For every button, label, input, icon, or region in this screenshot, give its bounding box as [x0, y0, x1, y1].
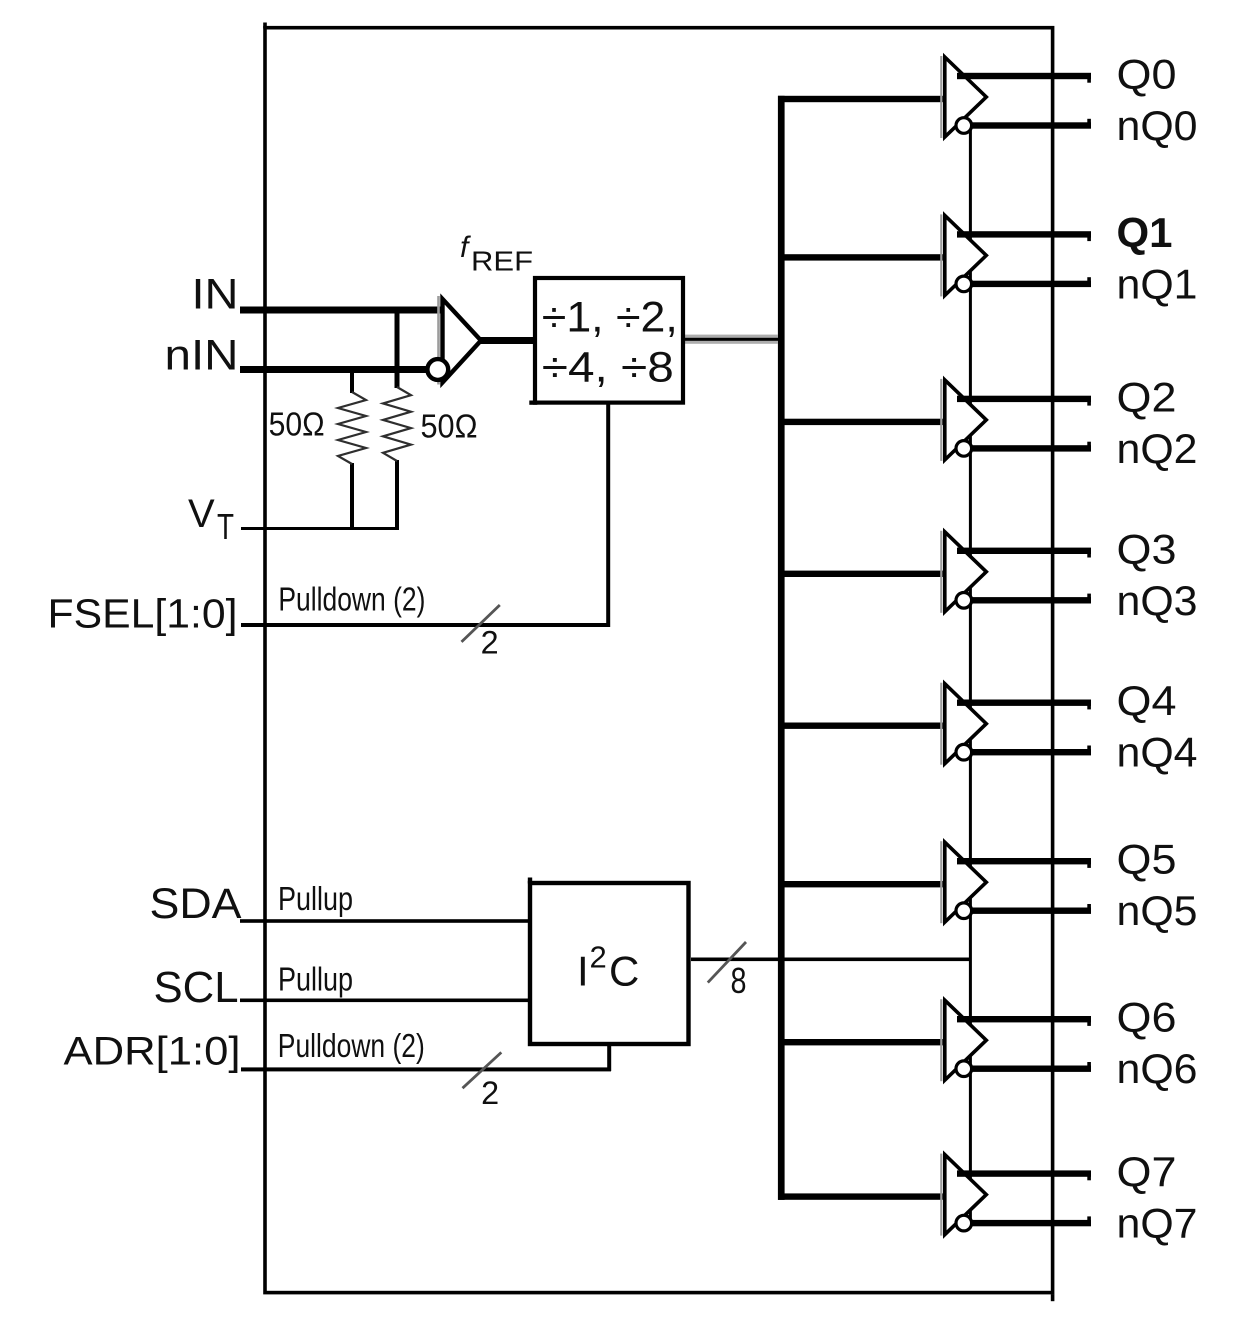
svg-text:Pulldown (2): Pulldown (2) — [278, 1027, 425, 1064]
svg-text:Q1: Q1 — [1117, 209, 1173, 256]
svg-text:50Ω: 50Ω — [421, 408, 478, 445]
svg-text:÷4, ÷8: ÷4, ÷8 — [542, 345, 674, 392]
svg-text:nQ5: nQ5 — [1117, 887, 1198, 934]
svg-text:T: T — [217, 506, 234, 547]
svg-text:Pullup: Pullup — [278, 961, 353, 998]
svg-text:Q2: Q2 — [1117, 373, 1177, 420]
svg-text:FSEL[1:0]: FSEL[1:0] — [48, 591, 238, 637]
svg-text:nQ1: nQ1 — [1117, 260, 1198, 307]
svg-text:Q0: Q0 — [1117, 51, 1177, 98]
svg-text:nIN: nIN — [165, 332, 239, 380]
svg-text:Q6: Q6 — [1117, 994, 1177, 1041]
svg-text:IN: IN — [192, 271, 239, 319]
svg-text:nQ2: nQ2 — [1117, 425, 1198, 472]
svg-text:50Ω: 50Ω — [269, 406, 325, 443]
svg-text:C: C — [609, 948, 639, 995]
svg-text:Pullup: Pullup — [278, 880, 353, 917]
svg-text:nQ7: nQ7 — [1117, 1200, 1198, 1247]
svg-text:Pulldown (2): Pulldown (2) — [278, 581, 425, 618]
svg-text:nQ0: nQ0 — [1117, 102, 1198, 149]
svg-text:2: 2 — [481, 625, 499, 661]
svg-text:SDA: SDA — [150, 880, 242, 928]
svg-text:8: 8 — [731, 960, 747, 1001]
svg-text:Q7: Q7 — [1117, 1148, 1177, 1195]
svg-text:÷1, ÷2,: ÷1, ÷2, — [542, 295, 678, 342]
svg-text:Q3: Q3 — [1117, 525, 1177, 572]
svg-text:SCL: SCL — [154, 964, 239, 1012]
svg-text:nQ4: nQ4 — [1117, 729, 1198, 776]
svg-text:Q5: Q5 — [1117, 836, 1177, 883]
svg-text:nQ3: nQ3 — [1117, 577, 1198, 624]
svg-text:ADR[1:0]: ADR[1:0] — [64, 1030, 241, 1074]
svg-text:2: 2 — [481, 1075, 499, 1111]
svg-text:Q4: Q4 — [1117, 677, 1177, 724]
svg-text:REF: REF — [471, 246, 533, 277]
svg-text:nQ6: nQ6 — [1117, 1045, 1198, 1092]
svg-text:V: V — [188, 492, 215, 536]
svg-text:f: f — [460, 231, 471, 264]
svg-text:2: 2 — [590, 940, 607, 975]
svg-text:I: I — [577, 948, 589, 995]
